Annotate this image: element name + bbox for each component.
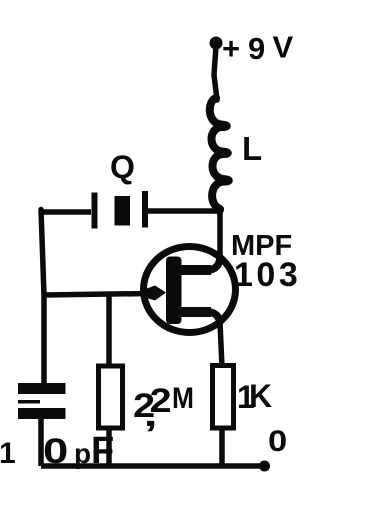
svg-text:+: + [222, 31, 240, 66]
label Q [110, 149, 135, 185]
JFET U1: drain lead [179, 258, 220, 270]
label L [242, 130, 262, 167]
+9V supply terminal [210, 37, 223, 50]
node: inductor/crystal/drain junction [215, 206, 224, 215]
capacitor C1 top plate [18, 383, 66, 394]
inductor L [210, 98, 229, 209]
svg-text:103: 103 [234, 256, 301, 294]
svg-text:0: 0 [268, 424, 287, 457]
label 103 [234, 256, 301, 294]
crystal Q: left wire [41, 209, 91, 215]
wire: ground rail [41, 463, 264, 469]
label 2,2M [133, 380, 194, 433]
wire: 1K resistor to ground rail [219, 429, 225, 466]
label 0 (output) [268, 424, 287, 457]
capacitor C1 bottom plate [18, 400, 66, 419]
svg-text:K: K [249, 378, 272, 414]
wire: 2.2M resistor to ground rail [106, 430, 112, 466]
crystal Q: right plate [142, 191, 148, 228]
output terminal dot [259, 461, 270, 472]
JFET U1 MPF103: envelope circle [144, 247, 236, 333]
wire: JFET source to 1K resistor [220, 322, 222, 367]
wire: +9V terminal to inductor [214, 46, 217, 100]
wire: left rail (crystal to capacitor) [41, 210, 44, 386]
svg-text:Q: Q [110, 149, 135, 185]
wire: gate line from left rail to JFET [44, 294, 150, 296]
label +9V [222, 30, 294, 67]
resistor R2 1K [213, 366, 234, 429]
wire: gate line to 2.2M resistor [106, 295, 112, 364]
svg-text:1: 1 [0, 437, 16, 470]
JFET U1: gate arrow [143, 286, 167, 301]
resistor R1 2.2M [99, 366, 123, 428]
svg-text:9: 9 [248, 31, 265, 66]
svg-text:V: V [273, 30, 294, 65]
crystal Q: left plate [92, 193, 98, 229]
wire: capacitor to ground rail [38, 419, 44, 466]
JFET U1: source lead [179, 312, 220, 323]
crystal Q: right wire [148, 208, 221, 214]
label 1K [237, 378, 272, 415]
crystal Q: body [115, 196, 131, 226]
svg-text:L: L [242, 130, 262, 167]
svg-text:2: 2 [150, 382, 172, 420]
wire: inductor/crystal node down to JFET drain [217, 211, 223, 260]
svg-text:M: M [172, 380, 194, 414]
label 10pF [0, 430, 114, 472]
JFET U1: channel bar [166, 257, 182, 325]
label MPF [231, 230, 292, 262]
